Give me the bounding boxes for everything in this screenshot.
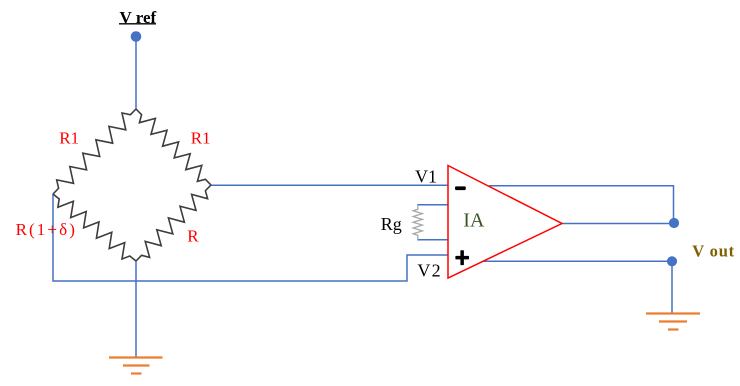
svg-text:V1: V1 — [415, 167, 437, 187]
svg-text:Rg: Rg — [381, 214, 402, 234]
svg-text:R1: R1 — [59, 129, 79, 148]
svg-text:R: R — [187, 226, 199, 245]
svg-text:IA: IA — [463, 209, 485, 231]
svg-text:R(1+δ): R(1+δ) — [16, 220, 77, 239]
svg-text:R1: R1 — [191, 129, 211, 148]
svg-text:V2: V2 — [417, 261, 441, 281]
svg-text:V out: V out — [692, 242, 735, 261]
